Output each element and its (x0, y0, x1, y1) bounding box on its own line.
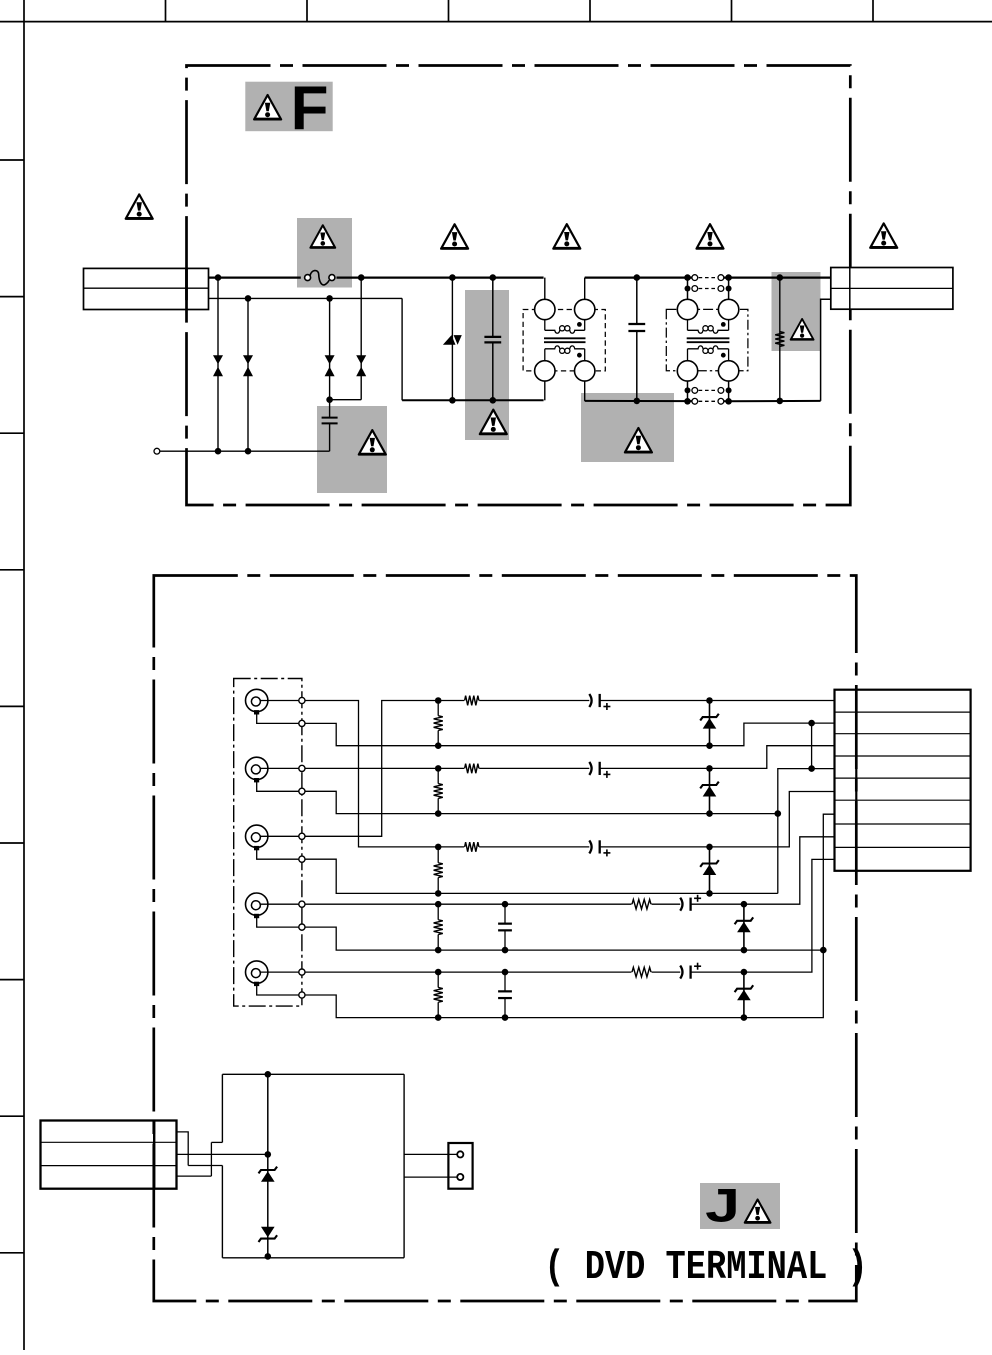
svg-text:( DVD TERMINAL ): ( DVD TERMINAL ) (544, 1245, 867, 1291)
svg-text:F: F (291, 74, 329, 143)
svg-text:J: J (705, 1179, 740, 1232)
